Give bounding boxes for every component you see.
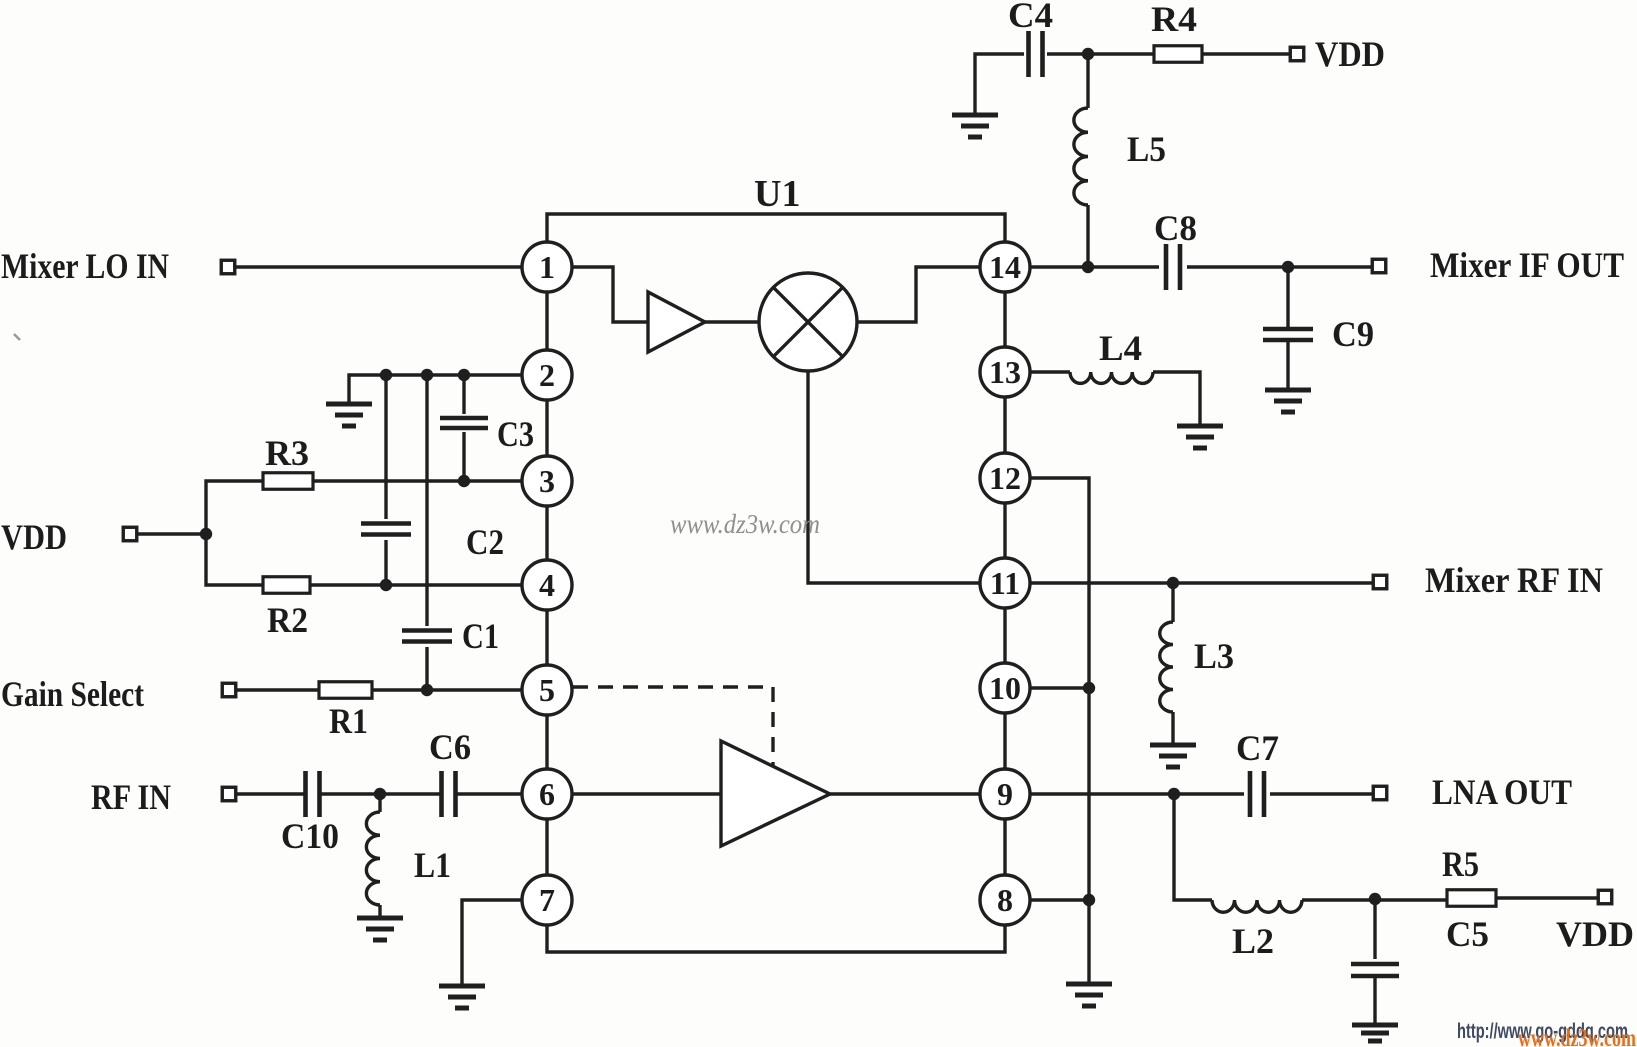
pin 7 of U1 [522,875,572,925]
svg-text:12: 12 [989,460,1021,496]
svg-text:C4: C4 [1008,0,1053,35]
wire L4 to ground drop [1153,372,1200,425]
wire U1 top edge from pin 1 to pin 14 [547,214,1005,242]
pin 5 of U1 [522,665,572,715]
net label VDD top [1315,34,1385,74]
pin 10 of U1 [980,663,1030,713]
inductor L5 [1074,108,1088,205]
pin 13 of U1 [980,347,1030,397]
wire between pin 9 and pin 8 [1003,819,1006,875]
IC label U1 [754,173,800,215]
pin 12 of U1 [980,453,1030,503]
op-amp A2 LNA [721,741,830,846]
node pin2-C2 junction [380,369,392,381]
terminal Gain Select [222,683,236,697]
wire C3 bottom lead [462,432,465,481]
resistor R4 [1154,46,1202,63]
label R2 [267,600,308,640]
pin 1 of U1 [522,242,572,292]
svg-text:4: 4 [539,567,555,603]
capacitor C8 [1166,244,1180,290]
node L5-pin14 junction [1082,261,1094,273]
wire C7 to LNA OUT [1270,792,1372,795]
wire C4 to R4 [1047,52,1154,55]
wire Gain Select to R1 [236,688,319,691]
wire L3 top lead [1171,583,1174,622]
ground L1 [357,918,403,940]
pin 14 of U1 [980,242,1030,292]
resistor R1 [319,682,372,699]
svg-text:C1: C1 [462,616,499,656]
wire pin 7 to ground [462,900,522,985]
net label LNA OUT [1432,772,1572,812]
svg-text:U1: U1 [754,173,800,215]
svg-text:Mixer RF IN: Mixer RF IN [1425,560,1603,600]
net label Mixer LO IN [1,246,169,286]
svg-text:3: 3 [539,463,555,499]
capacitor C7 [1250,771,1264,817]
wire between pin 2 and pin 3 [545,400,548,456]
svg-text:www.dz3w.com: www.dz3w.com [670,509,820,539]
svg-text:10: 10 [989,670,1021,706]
svg-text:R5: R5 [1442,844,1479,884]
wire VDD to rail [137,532,206,535]
wire between pin 11 and pin 10 [1003,608,1006,663]
svg-text:R2: R2 [267,600,308,640]
wire L1 bottom lead [378,905,381,917]
net label Mixer IF OUT [1430,245,1624,285]
wire L5 bottom lead [1086,205,1089,267]
label L4 [1099,328,1142,368]
svg-text:C6: C6 [429,727,471,767]
terminal VDD top [1290,47,1304,61]
terminal Mixer RF IN [1373,575,1387,589]
wire L2 left lead [1174,794,1212,900]
wire C9 bottom lead [1286,340,1289,389]
label C9 [1332,314,1374,354]
resistor R5 [1447,890,1496,907]
watermark www.dz3w.com center [670,509,820,539]
label L2 [1232,921,1274,961]
wire between pin 12 and pin 11 [1003,503,1006,558]
terminal VDD bottom [1598,890,1612,904]
pin 11 of U1 [980,558,1030,608]
watermark http://www.go-gddq.com [1457,1020,1628,1043]
wire between pin 6 and pin 7 [545,819,548,875]
svg-text:C3: C3 [497,414,534,454]
wire C1 bottom lead [425,647,428,690]
wire Mixer LO IN to pin 1 [235,265,522,268]
ground L4 [1177,426,1223,448]
wire R3 to left rail [206,481,263,585]
wire R5 to VDD terminal [1496,896,1598,899]
svg-text:RF IN: RF IN [91,777,171,817]
pin 6 of U1 [522,769,572,819]
svg-text:LNA OUT: LNA OUT [1432,772,1572,812]
label C6 [429,727,471,767]
label C10 [281,816,339,856]
scan speck [14,334,20,340]
terminal LNA OUT [1373,786,1387,800]
pin 2 of U1 [522,350,572,400]
wire L5 top lead [1086,54,1089,108]
svg-text:R4: R4 [1151,0,1197,39]
wire pin 2 bypass bus [349,375,522,403]
svg-text:14: 14 [989,249,1021,285]
wire C8 to Mixer IF OUT [1187,265,1372,268]
label R4 [1151,0,1197,39]
wire between pin 5 and pin 6 [545,715,548,769]
wire R2 to pin 4 [310,583,522,586]
wire C4 left lead and drop [975,54,1024,114]
label C7 [1236,728,1279,768]
net label VDD bottom [1556,914,1634,954]
svg-text:C10: C10 [281,816,339,856]
wire between pin 4 and pin 5 [545,610,548,665]
svg-text:www.dz3w.com: www.dz3w.com [1518,1025,1636,1047]
svg-text:Mixer LO IN: Mixer LO IN [1,246,169,286]
node C4-R4-L5 junction [1082,48,1094,60]
wire C2 bottom lead [384,540,387,585]
node pin8 rail junction [1083,894,1095,906]
svg-text:C9: C9 [1332,314,1374,354]
resistor R2 [263,577,310,594]
label L5 [1127,129,1166,169]
svg-text:C7: C7 [1236,728,1279,768]
node C3-pin3 junction [458,475,470,487]
label C5 [1446,914,1489,954]
svg-text:7: 7 [539,882,555,918]
wire between pin 3 and pin 4 [545,506,548,560]
ground pin 2 bus [326,404,372,426]
wire C5 top lead [1373,899,1376,959]
wire pin 8 to rail [1030,898,1089,901]
svg-text:VDD: VDD [1,517,67,557]
wire pin 6 to LNA input [572,792,721,795]
svg-text:C2: C2 [466,522,504,562]
svg-text:R1: R1 [329,701,368,741]
node C1-pin5 junction [421,684,433,696]
svg-text:VDD: VDD [1556,914,1634,954]
wire pin 3 to R3 [313,479,522,482]
inductor L2 [1212,900,1302,912]
pin 3 of U1 [522,456,572,506]
node L3 junction [1167,577,1179,589]
svg-text:1: 1 [539,249,555,285]
resistor R3 [263,473,313,490]
inductor L4 [1070,372,1153,383]
wire pin 9 to C7 [1030,792,1244,795]
ground L3 [1150,745,1196,767]
wire RF IN to C10 [236,792,306,795]
wire L2 to R5 [1302,898,1447,901]
wire L1 top lead [378,794,381,812]
label R3 [265,433,309,473]
ground pin 7 [439,986,485,1008]
svg-text:2: 2 [539,357,555,393]
label C3 [497,414,534,454]
pin 9 of U1 [980,769,1030,819]
op-amp A1 LO buffer [648,292,705,352]
wire C10 to C6 [319,792,441,795]
dashed gain-select control line from pin 5 to LNA [573,687,773,766]
node pin2-C1 junction [421,369,433,381]
label C1 [462,616,499,656]
svg-text:13: 13 [989,354,1021,390]
ground rail [1066,984,1112,1006]
wire pin 12 rail [1030,478,1089,983]
svg-text:L4: L4 [1099,328,1142,368]
node pin2-C3 junction [458,369,470,381]
capacitor C4 [1029,31,1043,77]
ground C4 [952,115,998,137]
wire LNA output to pin 9 [830,792,980,795]
terminal Mixer IF OUT [1372,259,1386,273]
svg-text:5: 5 [539,672,555,708]
node L1 junction [374,788,386,800]
wire mixer output to pin 14 [857,267,980,322]
net label RF IN [91,777,171,817]
mixer M1 [759,273,857,371]
label L1 [414,845,451,885]
wire between pin 10 and pin 9 [1003,713,1006,769]
label R5 [1442,844,1479,884]
wire between pin 1 and pin 2 [545,292,548,350]
svg-text:C8: C8 [1154,208,1197,248]
label R1 [329,701,368,741]
wire C1 top lead [425,375,428,626]
node C9 junction [1282,261,1294,273]
wire pin 10 to rail [1030,686,1089,689]
wire U1 bottom edge from pin 7 to pin 8 [547,925,1005,952]
wire between pin 14 and pin 13 [1003,292,1006,347]
capacitor C3 [440,418,488,428]
capacitor C2 [361,524,411,535]
svg-text:6: 6 [539,776,555,812]
svg-text:C5: C5 [1446,914,1489,954]
wire mixer RF port down to pin 11 net [808,371,980,583]
capacitor C9 [1263,329,1313,340]
capacitor C10 [306,771,320,817]
wire pin 11 to Mixer RF IN [1030,581,1372,584]
node C2-pin4 junction [380,579,392,591]
wire R4 to VDD terminal [1202,52,1290,55]
svg-text:L1: L1 [414,845,451,885]
wire C5 bottom lead [1373,976,1376,1024]
node R5-C5 junction [1369,893,1381,905]
wire between pin 13 and pin 12 [1003,397,1006,453]
capacitor C5 [1351,964,1399,976]
capacitor C6 [442,771,456,817]
label C8 [1154,208,1197,248]
wire pin 1 to LO buffer input [572,267,647,322]
wire C9 top lead [1286,267,1289,329]
net label VDD left [1,517,67,557]
wire L3 bottom lead [1171,712,1174,744]
svg-text:L3: L3 [1194,636,1234,676]
svg-text:VDD: VDD [1315,34,1385,74]
wire C2 top lead [384,375,387,519]
terminal Mixer LO IN [221,260,235,274]
label L3 [1194,636,1234,676]
svg-text:R3: R3 [265,433,309,473]
node VDD rail junction [200,528,212,540]
svg-text:Gain Select: Gain Select [1,674,144,714]
inductor L3 [1160,622,1173,712]
label C4 [1008,0,1053,35]
label C2 [466,522,504,562]
svg-text:8: 8 [997,882,1013,918]
inductor L1 [366,812,380,905]
svg-text:9: 9 [997,776,1013,812]
terminal RF IN [222,787,236,801]
wire C3 top lead [462,375,465,414]
svg-text:L2: L2 [1232,921,1274,961]
svg-text:Mixer IF OUT: Mixer IF OUT [1430,245,1624,285]
watermark www.dz3w.com bottom right [1518,1025,1636,1047]
svg-text:11: 11 [990,565,1020,601]
wire R1 to pin 5 [372,688,522,691]
wire LO buffer output to mixer [704,320,760,323]
wire pin 13 to L4 [1030,370,1070,373]
svg-text:L5: L5 [1127,129,1166,169]
pin 4 of U1 [522,560,572,610]
ground C5 [1352,1025,1398,1041]
node C7-L2 junction [1168,788,1180,800]
node pin10 rail junction [1083,682,1095,694]
net label Mixer RF IN [1425,560,1603,600]
pin 8 of U1 [980,875,1030,925]
capacitor C1 [402,631,452,642]
terminal VDD left [123,527,137,541]
ground C9 [1265,390,1311,412]
wire C6 to pin 6 [456,792,522,795]
wire pin 14 to C8 [1030,265,1159,268]
net label Gain Select [1,674,144,714]
